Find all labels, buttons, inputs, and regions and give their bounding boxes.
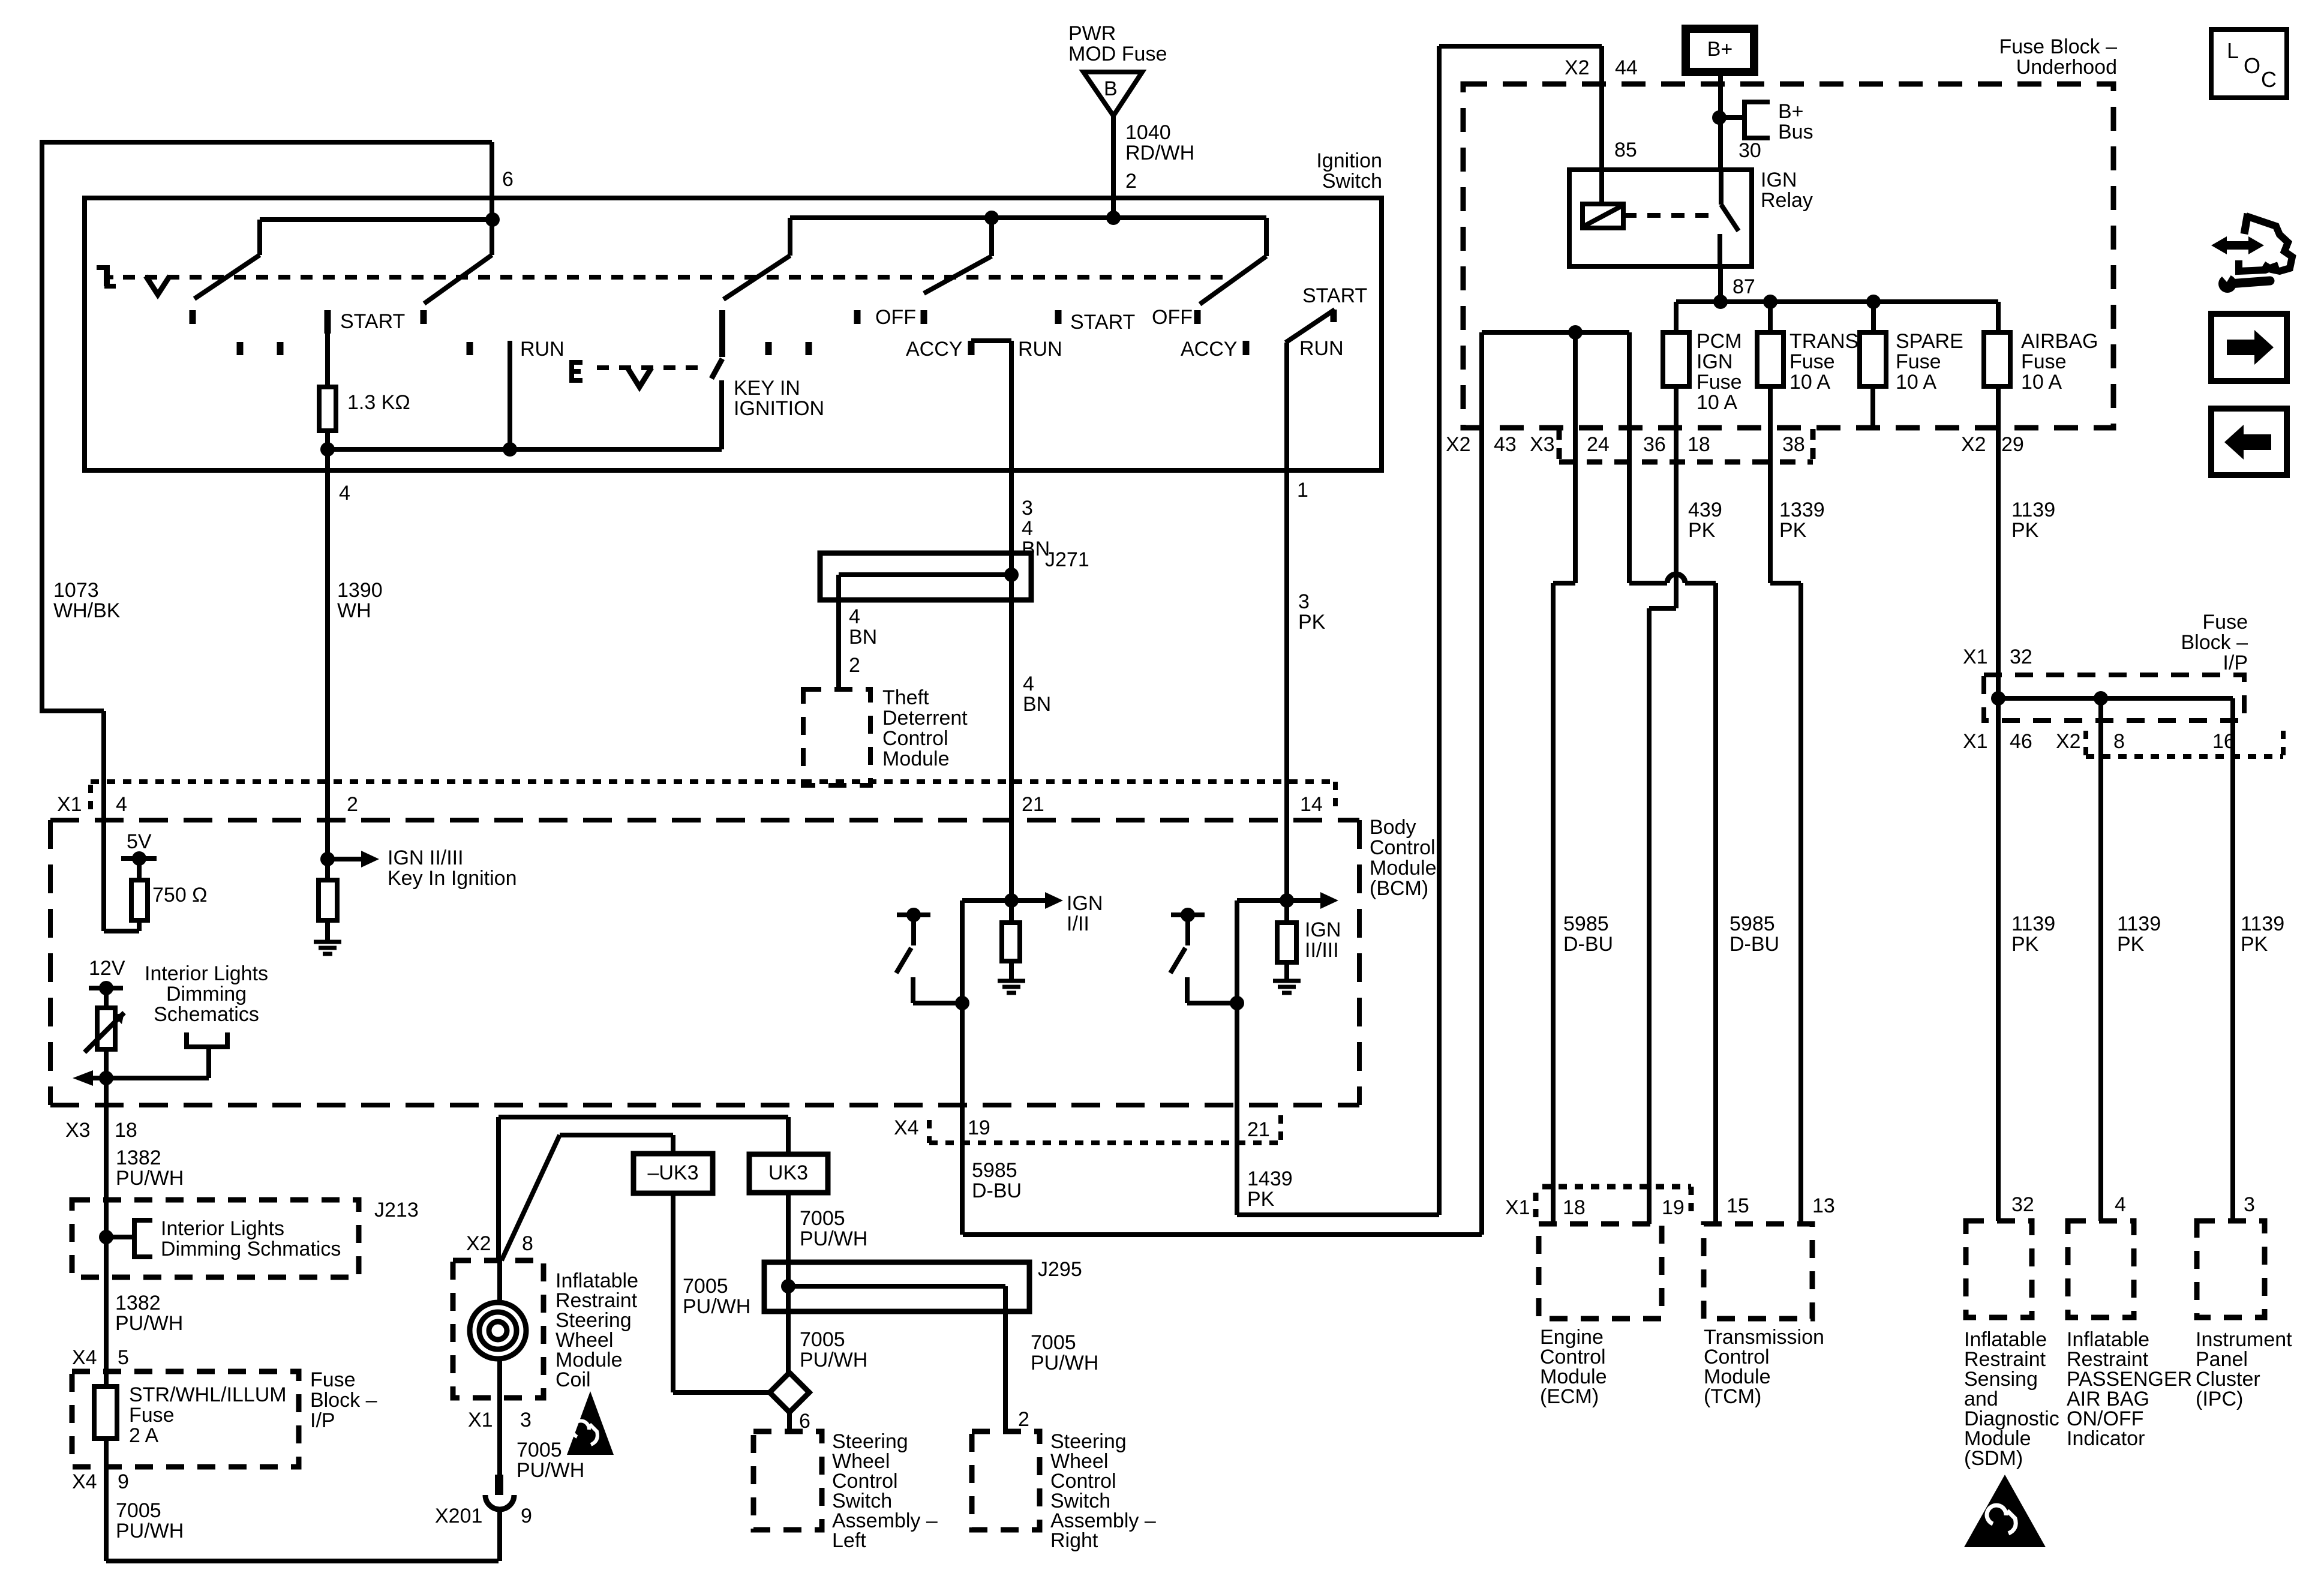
svg-text:7005: 7005 <box>116 1499 161 1522</box>
svg-text:16: 16 <box>2212 730 2235 753</box>
svg-text:PU/WH: PU/WH <box>800 1349 867 1371</box>
svg-text:29: 29 <box>2001 433 2024 456</box>
svg-text:3: 3 <box>1022 497 1033 520</box>
svg-text:X1: X1 <box>1963 730 1988 753</box>
svg-text:Key In Ignition: Key In Ignition <box>388 867 517 890</box>
svg-text:I/II: I/II <box>1067 912 1089 935</box>
svg-text:SPARE: SPARE <box>1896 330 1963 353</box>
svg-text:1439: 1439 <box>1247 1167 1293 1190</box>
svg-text:PU/WH: PU/WH <box>517 1459 584 1482</box>
svg-text:Control: Control <box>1370 836 1436 859</box>
svg-text:Interior Lights: Interior Lights <box>161 1217 284 1240</box>
svg-text:Indicator: Indicator <box>2067 1427 2145 1450</box>
svg-text:O: O <box>2244 53 2260 78</box>
svg-text:B+: B+ <box>1778 100 1804 123</box>
svg-text:RD/WH: RD/WH <box>1125 142 1194 164</box>
svg-text:(ECM): (ECM) <box>1540 1385 1599 1408</box>
svg-text:10 A: 10 A <box>2021 371 2062 394</box>
svg-text:J295: J295 <box>1038 1258 1082 1281</box>
svg-text:18: 18 <box>115 1119 137 1142</box>
svg-text:1139: 1139 <box>2241 912 2284 935</box>
svg-text:Fuse: Fuse <box>2021 350 2067 373</box>
svg-text:Module: Module <box>1370 857 1437 879</box>
svg-text:19: 19 <box>1662 1196 1685 1219</box>
svg-text:PCM: PCM <box>1697 330 1742 353</box>
svg-text:18: 18 <box>1563 1196 1586 1219</box>
svg-text:439: 439 <box>1688 499 1722 521</box>
svg-text:OFF: OFF <box>1152 306 1193 329</box>
svg-text:1382: 1382 <box>115 1292 161 1314</box>
svg-text:Switch: Switch <box>1322 170 1382 193</box>
svg-text:Fuse Block –: Fuse Block – <box>1999 35 2117 58</box>
svg-text:AIRBAG: AIRBAG <box>2021 330 2098 353</box>
svg-text:TRANS: TRANS <box>1789 330 1858 353</box>
svg-text:Fuse: Fuse <box>1697 371 1742 394</box>
svg-text:X2: X2 <box>1961 433 1986 456</box>
svg-text:PWR: PWR <box>1068 22 1116 45</box>
svg-text:MOD Fuse: MOD Fuse <box>1068 43 1167 65</box>
svg-text:KEY IN: KEY IN <box>734 377 800 400</box>
svg-text:X3: X3 <box>1530 433 1555 456</box>
svg-text:PU/WH: PU/WH <box>1031 1352 1098 1374</box>
svg-text:X2: X2 <box>466 1232 491 1255</box>
svg-text:4: 4 <box>1022 517 1033 540</box>
svg-text:3: 3 <box>2244 1193 2255 1216</box>
svg-text:2 A: 2 A <box>129 1424 158 1447</box>
svg-text:21: 21 <box>1022 793 1044 816</box>
svg-text:(TCM): (TCM) <box>1704 1385 1761 1408</box>
svg-text:IGN: IGN <box>1067 892 1103 915</box>
svg-text:21: 21 <box>1247 1118 1270 1141</box>
svg-text:WH: WH <box>337 599 371 622</box>
svg-text:Dimming: Dimming <box>166 983 247 1005</box>
svg-text:7005: 7005 <box>1031 1331 1076 1354</box>
svg-text:3: 3 <box>1298 590 1310 613</box>
svg-text:X2: X2 <box>2056 730 2081 753</box>
svg-text:X2: X2 <box>1565 56 1590 79</box>
svg-text:J271: J271 <box>1045 548 1089 571</box>
svg-text:8: 8 <box>2113 730 2125 753</box>
svg-text:24: 24 <box>1587 433 1610 456</box>
svg-text:14: 14 <box>1300 793 1323 816</box>
svg-text:PU/WH: PU/WH <box>116 1520 184 1542</box>
svg-text:Fuse: Fuse <box>129 1404 175 1427</box>
svg-text:5985: 5985 <box>1730 912 1775 935</box>
svg-text:PU/WH: PU/WH <box>115 1312 183 1335</box>
svg-text:Relay: Relay <box>1761 189 1813 212</box>
svg-text:2: 2 <box>1018 1408 1029 1431</box>
svg-text:X4: X4 <box>72 1346 97 1369</box>
svg-text:X1: X1 <box>57 793 82 816</box>
svg-text:Bus: Bus <box>1778 121 1813 143</box>
svg-text:Underhood: Underhood <box>2016 56 2117 79</box>
svg-text:X201: X201 <box>435 1505 482 1527</box>
svg-text:19: 19 <box>968 1116 990 1139</box>
svg-text:X3: X3 <box>65 1119 91 1142</box>
svg-text:1: 1 <box>1297 479 1308 502</box>
svg-text:4: 4 <box>116 793 127 816</box>
svg-text:(SDM): (SDM) <box>1964 1447 2023 1470</box>
svg-text:D-BU: D-BU <box>972 1179 1022 1202</box>
svg-text:Ignition: Ignition <box>1316 149 1382 172</box>
svg-text:(IPC): (IPC) <box>2196 1388 2243 1410</box>
svg-text:D-BU: D-BU <box>1563 933 1613 956</box>
svg-text:IGN: IGN <box>1697 350 1733 373</box>
svg-text:C: C <box>2261 67 2277 92</box>
svg-text:I/P: I/P <box>310 1409 335 1432</box>
svg-text:7005: 7005 <box>683 1275 728 1298</box>
svg-text:STR/WHL/ILLUM: STR/WHL/ILLUM <box>129 1383 287 1406</box>
svg-text:X2: X2 <box>1446 433 1471 456</box>
svg-text:4: 4 <box>849 605 860 628</box>
svg-text:43: 43 <box>1494 433 1517 456</box>
svg-text:44: 44 <box>1615 56 1638 79</box>
svg-text:10 A: 10 A <box>1789 371 1830 394</box>
svg-text:12V: 12V <box>89 957 125 980</box>
svg-text:PU/WH: PU/WH <box>683 1295 750 1318</box>
svg-text:1339: 1339 <box>1779 499 1825 521</box>
svg-text:1139: 1139 <box>2117 912 2161 935</box>
svg-text:32: 32 <box>2011 1193 2034 1216</box>
svg-text:4: 4 <box>1023 673 1034 695</box>
svg-text:X1: X1 <box>468 1409 493 1431</box>
svg-text:–UK3: –UK3 <box>647 1161 698 1184</box>
svg-text:5985: 5985 <box>1563 912 1609 935</box>
svg-text:Interior Lights: Interior Lights <box>145 962 268 985</box>
svg-text:START: START <box>340 310 405 333</box>
svg-text:I/P: I/P <box>2223 652 2248 674</box>
svg-text:5: 5 <box>118 1346 129 1369</box>
svg-text:Fuse: Fuse <box>1789 350 1835 373</box>
svg-text:8: 8 <box>522 1232 533 1255</box>
svg-text:1382: 1382 <box>116 1146 161 1169</box>
svg-text:IGN II/III: IGN II/III <box>388 846 464 869</box>
svg-text:9: 9 <box>118 1470 129 1493</box>
svg-text:2: 2 <box>1125 170 1137 193</box>
svg-text:13: 13 <box>1812 1194 1835 1217</box>
svg-text:RUN: RUN <box>1299 337 1344 360</box>
svg-text:Fuse: Fuse <box>310 1368 356 1391</box>
svg-text:PK: PK <box>1779 519 1807 542</box>
svg-text:(BCM): (BCM) <box>1370 877 1428 900</box>
svg-text:32: 32 <box>2010 646 2032 668</box>
svg-text:7005: 7005 <box>800 1328 845 1351</box>
svg-text:1390: 1390 <box>337 579 383 602</box>
svg-text:1073: 1073 <box>53 579 99 602</box>
svg-text:WH/BK: WH/BK <box>53 599 121 622</box>
svg-text:RUN: RUN <box>520 338 565 361</box>
svg-text:PU/WH: PU/WH <box>800 1227 867 1250</box>
svg-text:Right: Right <box>1050 1529 1098 1552</box>
svg-text:750 Ω: 750 Ω <box>152 884 208 906</box>
svg-text:PK: PK <box>1247 1188 1275 1211</box>
svg-text:87: 87 <box>1733 275 1755 298</box>
svg-text:7005: 7005 <box>517 1439 562 1461</box>
svg-text:PK: PK <box>1298 611 1326 634</box>
svg-text:IGNITION: IGNITION <box>734 397 824 420</box>
svg-text:IGN: IGN <box>1305 918 1341 941</box>
svg-text:Block –: Block – <box>2181 631 2248 654</box>
svg-text:10 A: 10 A <box>1697 391 1737 414</box>
svg-text:1139: 1139 <box>2011 499 2055 521</box>
svg-text:Coil: Coil <box>556 1368 591 1391</box>
svg-text:2: 2 <box>849 654 860 677</box>
svg-text:46: 46 <box>2010 730 2032 753</box>
svg-text:ACCY: ACCY <box>1181 338 1237 361</box>
svg-text:PK: PK <box>1688 519 1716 542</box>
svg-text:Control: Control <box>882 727 948 750</box>
svg-text:2: 2 <box>347 793 358 816</box>
svg-text:1139: 1139 <box>2011 912 2055 935</box>
svg-text:30: 30 <box>1739 139 1761 162</box>
svg-text:X1: X1 <box>1505 1196 1530 1219</box>
svg-text:10 A: 10 A <box>1896 371 1936 394</box>
svg-text:Body: Body <box>1370 816 1416 839</box>
svg-text:B: B <box>1104 77 1118 100</box>
svg-text:15: 15 <box>1727 1194 1749 1217</box>
svg-text:PU/WH: PU/WH <box>116 1167 184 1190</box>
svg-text:38: 38 <box>1782 433 1805 456</box>
svg-text:BN: BN <box>849 626 877 649</box>
svg-text:Block –: Block – <box>310 1389 377 1412</box>
svg-text:PK: PK <box>2117 933 2145 956</box>
svg-text:OFF: OFF <box>875 306 916 329</box>
svg-text:Theft: Theft <box>882 686 929 709</box>
svg-text:36: 36 <box>1643 433 1666 456</box>
svg-text:Deterrent: Deterrent <box>882 707 968 730</box>
svg-text:5V: 5V <box>127 830 152 853</box>
svg-text:85: 85 <box>1614 139 1637 161</box>
svg-text:L: L <box>2227 38 2239 63</box>
svg-text:PK: PK <box>2011 519 2039 542</box>
svg-text:9: 9 <box>521 1505 532 1527</box>
svg-text:RUN: RUN <box>1018 338 1062 361</box>
svg-text:18: 18 <box>1688 433 1710 456</box>
svg-text:1.3 KΩ: 1.3 KΩ <box>347 391 410 414</box>
svg-text:3: 3 <box>520 1409 532 1431</box>
svg-text:B+: B+ <box>1707 38 1733 61</box>
svg-text:PK: PK <box>2011 933 2039 956</box>
svg-text:Module: Module <box>882 748 950 770</box>
svg-text:X4: X4 <box>894 1116 919 1139</box>
svg-text:BN: BN <box>1023 693 1051 716</box>
svg-text:J213: J213 <box>374 1199 419 1221</box>
svg-text:ACCY: ACCY <box>906 338 962 361</box>
svg-text:Left: Left <box>832 1529 866 1552</box>
svg-text:UK3: UK3 <box>768 1161 808 1184</box>
svg-text:Fuse: Fuse <box>2202 611 2248 634</box>
svg-text:7005: 7005 <box>800 1207 845 1230</box>
svg-text:4: 4 <box>2115 1193 2126 1216</box>
svg-text:START: START <box>1302 284 1367 307</box>
svg-text:5985: 5985 <box>972 1159 1017 1182</box>
svg-text:Schematics: Schematics <box>154 1003 259 1026</box>
svg-text:X4: X4 <box>72 1470 97 1493</box>
svg-text:X1: X1 <box>1963 646 1988 668</box>
svg-text:START: START <box>1070 311 1135 334</box>
svg-text:4: 4 <box>339 482 350 505</box>
svg-text:Dimming Schmatics: Dimming Schmatics <box>161 1238 341 1260</box>
svg-text:D-BU: D-BU <box>1730 933 1779 956</box>
svg-text:II/III: II/III <box>1305 939 1339 962</box>
svg-text:PK: PK <box>2241 933 2268 956</box>
svg-text:1040: 1040 <box>1125 121 1171 144</box>
svg-text:6: 6 <box>502 168 514 191</box>
svg-text:IGN: IGN <box>1761 169 1797 191</box>
svg-text:Fuse: Fuse <box>1896 350 1941 373</box>
